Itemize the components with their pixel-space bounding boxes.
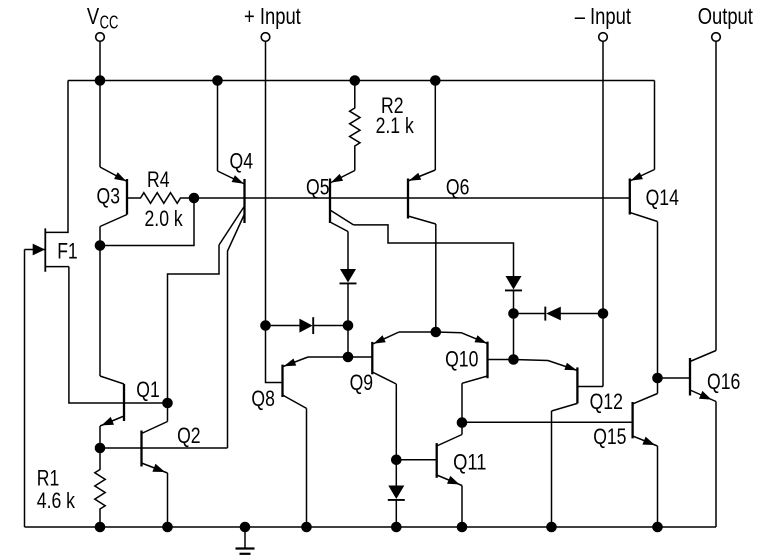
- svg-text:Q3: Q3: [97, 184, 121, 209]
- wire collector node to Q15 base: [462, 421, 633, 423]
- terminal -Input: [599, 33, 608, 42]
- svg-text:Q11: Q11: [453, 449, 486, 474]
- svg-text:V: V: [87, 3, 100, 29]
- transistor Q14: [630, 170, 658, 222]
- svg-text:Q2: Q2: [177, 423, 201, 448]
- wire +Input down to Q8 base: [266, 41, 283, 382]
- wire Output down to Q16 collector: [715, 41, 717, 350]
- diode D5 (below Q11 base node): [388, 486, 405, 500]
- junction Q9 base node: [343, 352, 353, 362]
- junction +Input / D1 anode: [261, 321, 271, 331]
- wire Q11 base: [396, 459, 436, 461]
- junction rail / Q15 emitter: [653, 522, 663, 532]
- transistor Q6: [408, 81, 436, 225]
- svg-text:+ Input: + Input: [244, 3, 301, 29]
- junction rail / D5: [392, 522, 402, 532]
- wire D2 cathode down to node: [347, 283, 349, 326]
- terminal Output: [712, 33, 721, 42]
- resistor R2: [350, 81, 360, 171]
- wire Q12 base down to ground rail: [551, 411, 553, 527]
- svg-text:Q15: Q15: [593, 424, 626, 449]
- ground symbol: [236, 527, 255, 554]
- junction rail / Q2 emitter: [163, 522, 173, 532]
- junction rail / Q8 collector: [302, 522, 312, 532]
- transistor F1 (JFET): [25, 228, 69, 271]
- junction Q10 base / Q12 emitter node: [509, 355, 519, 365]
- transistor Q9: [372, 332, 436, 384]
- svg-text:R1: R1: [37, 466, 60, 491]
- terminal +Input: [261, 33, 270, 42]
- wire top supply rail: [68, 80, 655, 82]
- junction D1/D2 cathode node: [343, 321, 353, 331]
- wire Q6 collector down to emitter node: [435, 224, 437, 332]
- wire Q8 collector down to ground rail: [306, 408, 308, 527]
- wire D5 cathode to ground rail: [395, 500, 397, 528]
- svg-text:2.1 k: 2.1 k: [376, 113, 415, 138]
- svg-text:4.6 k: 4.6 k: [37, 488, 76, 513]
- junction Q11 base node: [392, 455, 402, 465]
- transistor Q16: [690, 351, 716, 528]
- wire Q4 left collector down to Q1 base node: [168, 245, 220, 403]
- junction Q15 collector / Q16 base node: [653, 373, 663, 383]
- svg-text:Q5: Q5: [306, 175, 330, 200]
- wire +Input node to D1 anode: [266, 325, 300, 327]
- diode D1 (horizontal): [299, 317, 313, 334]
- transistor Q10: [436, 332, 514, 383]
- transistor Q5: [330, 171, 355, 232]
- transistor Q1: [100, 376, 124, 448]
- junction Q2 base / R1: [95, 443, 105, 453]
- wire VCC terminal to top rail: [99, 41, 101, 80]
- svg-text:CC: CC: [100, 12, 119, 32]
- wire bottom ground rail: [25, 526, 717, 528]
- wire Q11 base node down to D5: [395, 460, 397, 486]
- transistor Q12: [514, 360, 604, 412]
- resistor R4: [127, 193, 194, 204]
- wire rail left end down to F1 drain: [45, 81, 68, 233]
- wire Q14 collector down to Q16 base node: [657, 222, 659, 379]
- svg-text:Q4: Q4: [230, 149, 254, 174]
- junction rail / R1: [95, 522, 105, 532]
- junction -Input / Q12 collector node: [598, 309, 608, 319]
- wire F1 source down to Q1 base: [69, 267, 168, 403]
- transistor Q3: [100, 81, 127, 246]
- wire Q16 base: [658, 377, 691, 379]
- svg-text:Output: Output: [698, 3, 754, 29]
- transistor Q11: [437, 423, 462, 527]
- svg-text:Q6: Q6: [446, 175, 470, 200]
- junction rail / Q6 emitter: [431, 76, 441, 86]
- wire Q5 collector A to diode D3: [354, 225, 514, 276]
- wire D3 node down to Q10 base node: [513, 314, 515, 360]
- svg-text:Q12: Q12: [590, 389, 623, 414]
- transistor Q2: [142, 403, 168, 527]
- resistor R1: [95, 448, 105, 527]
- svg-text:Q9: Q9: [350, 370, 374, 395]
- junction Q9/Q10 emitter node: [431, 327, 441, 337]
- junction D3 / D4 node: [509, 309, 519, 319]
- transistor Q4: [218, 81, 245, 246]
- diode D3 (collector A path): [505, 276, 522, 290]
- wire base bus from R4 node to Q14 base: [194, 197, 630, 199]
- junction rail / R2: [350, 76, 360, 86]
- transistor Q8: [283, 357, 349, 408]
- wire rail right end down to Q14 emitter: [654, 81, 656, 170]
- wire D3 cathode down to node: [513, 290, 515, 314]
- wire Q3 collector node down to Q1 collector: [99, 246, 101, 377]
- junction rail / VCC: [95, 76, 105, 86]
- terminal VCC: [96, 33, 105, 42]
- junction Q10/Q11 collector node: [457, 418, 467, 428]
- diode D2 (below Q5): [340, 269, 357, 283]
- wire node to Q9 base: [348, 356, 372, 358]
- svg-text:Q14: Q14: [646, 185, 679, 210]
- junction rail / Q4 emitter: [213, 76, 223, 86]
- junction rail / ground: [240, 522, 250, 532]
- svg-text:R4: R4: [147, 167, 170, 192]
- transistor Q15: [633, 378, 658, 527]
- svg-text:– Input: – Input: [575, 3, 632, 29]
- svg-text:F1: F1: [57, 239, 77, 264]
- wire Q9 collector down to Q11 base node: [395, 384, 397, 460]
- svg-text:2.0 k: 2.0 k: [145, 206, 184, 231]
- wire Q10 collector down to node: [461, 383, 463, 422]
- wire D1 cathode to node: [313, 325, 348, 327]
- svg-text:Q10: Q10: [445, 347, 478, 372]
- wire R4 node down to Q3 collector node: [100, 198, 194, 246]
- wire Q4 right collector down to Q2 base: [228, 214, 245, 448]
- svg-text:Q8: Q8: [251, 386, 275, 411]
- wire Q2 base line: [100, 447, 228, 449]
- diode D4 (pointing left): [545, 307, 561, 321]
- wire -Input down to Q12 collector: [602, 41, 604, 386]
- junction rail / Q11 emitter: [457, 522, 467, 532]
- junction Q1 base node: [163, 398, 173, 408]
- wire Q5 collector B to diode D2: [347, 232, 349, 270]
- junction R4 / base bus: [189, 193, 199, 203]
- junction Q3 collector node: [95, 241, 105, 251]
- svg-text:Q16: Q16: [707, 369, 740, 394]
- svg-text:Q1: Q1: [136, 377, 160, 402]
- junction rail / Q12 base: [547, 522, 557, 532]
- wire F1 gate down to ground rail: [24, 250, 26, 528]
- wire D3 node to D4 cathode: [514, 313, 546, 315]
- wire D4 anode to -Input line: [561, 313, 604, 315]
- wire node down to Q9 base node: [347, 326, 349, 358]
